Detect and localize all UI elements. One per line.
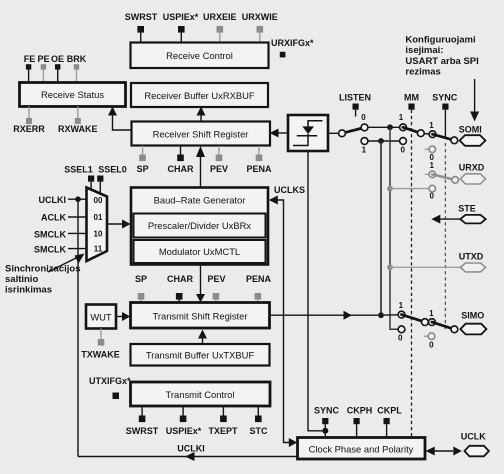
wire WUT to transmit-shift-register with right arrow	[116, 312, 130, 321]
svg-text:RXWAKE: RXWAKE	[58, 124, 98, 134]
svg-text:0: 0	[400, 146, 405, 155]
port SIMO	[460, 324, 486, 335]
pin square PENA (rx, gray)	[256, 146, 263, 161]
switch contact simo-mid2	[429, 319, 436, 326]
svg-text:USPIEx*: USPIEx*	[166, 426, 202, 436]
node utxd tap (gray)	[387, 264, 393, 270]
svg-text:URXEIE: URXEIE	[203, 12, 237, 22]
svg-text:0: 0	[398, 333, 403, 342]
svg-text:SYNC: SYNC	[314, 406, 340, 416]
svg-text:CHAR: CHAR	[167, 274, 193, 284]
annotation arrow (konfig outputs)	[470, 79, 479, 122]
mux clock-source selector	[87, 188, 108, 262]
svg-text:00: 00	[94, 196, 103, 205]
pin square SYNC (bottom)	[322, 418, 328, 424]
svg-text:PE: PE	[37, 54, 49, 64]
svg-text:Receive Control: Receive Control	[166, 50, 233, 61]
pin square TXWAKE (gray)	[98, 329, 105, 346]
svg-text:saltinio: saltinio	[5, 274, 38, 285]
svg-text:WUT: WUT	[90, 312, 112, 323]
port URXD (gray)	[460, 174, 485, 184]
svg-text:0: 0	[361, 113, 366, 122]
node rx junction	[387, 124, 393, 130]
svg-text:Transmit Control: Transmit Control	[166, 389, 235, 400]
pin square SWRST (top)	[137, 26, 144, 43]
svg-text:UTXD: UTXD	[459, 252, 484, 262]
svg-text:FE: FE	[24, 54, 36, 64]
svg-text:UCLKS: UCLKS	[274, 185, 305, 195]
pin square USPIEx* (bottom)	[180, 406, 187, 422]
wire UCLKI input	[68, 198, 87, 200]
pin square CHAR (tx)	[176, 293, 183, 303]
switch contact sync-0 stub (gray)	[425, 146, 436, 153]
svg-text:SP: SP	[135, 274, 147, 284]
box Receive Status	[20, 83, 126, 107]
svg-text:UTXIFGx*: UTXIFGx*	[89, 376, 131, 386]
wire UCLKI feedback (left vertical)	[77, 199, 79, 456]
svg-text:rezimas: rezimas	[405, 67, 440, 78]
svg-text:PEV: PEV	[207, 274, 225, 284]
switch contact urxd-in stub (gray)	[425, 171, 436, 178]
wire UTXD (gray)	[390, 266, 460, 268]
svg-text:0: 0	[429, 191, 434, 200]
svg-text:1: 1	[362, 146, 367, 155]
pin square CKPL	[384, 418, 390, 438]
wire tx to simo switch	[384, 314, 398, 316]
pin square CKPH	[354, 418, 360, 438]
switch lever listen	[342, 128, 364, 134]
svg-text:SMCLK: SMCLK	[34, 230, 66, 240]
wire rx row2	[368, 140, 400, 142]
pin square UTXIFGx*	[113, 393, 120, 400]
wire buffer-symbol to shift-register with left arrow	[270, 129, 289, 138]
port UCLK	[464, 446, 489, 457]
svg-text:SWRST: SWRST	[125, 12, 158, 22]
box WUT	[86, 305, 116, 329]
svg-text:SSEL0: SSEL0	[98, 165, 127, 175]
port STE	[460, 215, 485, 224]
node UCLKI feedback junction	[75, 196, 81, 202]
switch lever simo-2	[432, 322, 455, 329]
port SOMI	[460, 135, 486, 146]
pin square SWRST (bottom)	[139, 406, 146, 422]
switch contact somi	[451, 137, 458, 144]
svg-text:OE: OE	[51, 54, 64, 64]
switch contact simo-out	[451, 326, 458, 333]
svg-text:01: 01	[94, 213, 103, 222]
svg-text:LISTEN: LISTEN	[339, 93, 371, 103]
svg-text:CHAR: CHAR	[168, 164, 194, 174]
svg-text:1: 1	[429, 161, 434, 170]
wire SMCLK input	[68, 232, 87, 234]
svg-text:SOMI: SOMI	[459, 124, 482, 134]
svg-text:URXWIE: URXWIE	[242, 12, 278, 22]
svg-text:PENA: PENA	[246, 274, 272, 284]
wire mux output with right arrow	[107, 220, 131, 229]
box Receive Control	[131, 43, 269, 69]
svg-text:BRK: BRK	[67, 54, 87, 64]
wire SYNC control to buffer (vertical)	[308, 151, 323, 431]
pin square SP (tx, gray)	[138, 293, 145, 303]
switch contact mm-in	[400, 124, 407, 131]
svg-text:SIMO: SIMO	[461, 310, 484, 320]
svg-text:Receiver Shift Register: Receiver Shift Register	[153, 128, 249, 139]
box Prescaler/Divider UxBRx	[134, 214, 266, 238]
wire shift-register to receive-status with up arrow	[108, 107, 132, 131]
svg-text:STC: STC	[250, 426, 269, 436]
wire baud-generator to receiver-shift-register with up arrow	[196, 146, 205, 188]
svg-text:SWRST: SWRST	[126, 426, 159, 436]
svg-text:0: 0	[429, 341, 434, 350]
pin square SSEL1	[88, 176, 94, 191]
pin square URXEIE (gray)	[217, 26, 224, 43]
svg-text:TXEPT: TXEPT	[208, 426, 238, 436]
svg-text:Baud–Rate Generator: Baud–Rate Generator	[154, 195, 246, 206]
svg-text:SMCLK: SMCLK	[34, 245, 66, 255]
wire STE with left arrow	[431, 215, 460, 224]
svg-text:SSEL1: SSEL1	[64, 165, 93, 175]
switch contact urxd-tap (gray)	[429, 185, 436, 192]
box Receiver Shift Register	[132, 122, 271, 146]
svg-text:ACLK: ACLK	[41, 213, 66, 223]
svg-text:MM: MM	[404, 93, 419, 103]
box Modulator UxMCTL	[134, 240, 266, 263]
pin square PEV (tx, gray)	[213, 293, 220, 303]
switch contact sync-1	[429, 131, 436, 138]
svg-text:isrinkimas: isrinkimas	[5, 285, 52, 296]
box Baud-Rate Generator	[131, 188, 268, 265]
pin square LISTEN	[353, 104, 359, 117]
box Transmit Shift Register	[131, 303, 270, 329]
wire transmit-buffer to transmit-shift-register with up arrow	[198, 330, 207, 345]
svg-text:USPIEx*: USPIEx*	[163, 12, 199, 22]
svg-text:1: 1	[399, 301, 404, 310]
pin square STC	[255, 406, 262, 422]
svg-text:URXIFGx*: URXIFGx*	[271, 38, 314, 48]
wire UCLKI bottom with left arrow	[78, 452, 298, 461]
wire urxd tap (gray)	[390, 188, 429, 190]
wire SMCLK input (2)	[68, 248, 87, 250]
svg-text:Sinchronizacijos: Sinchronizacijos	[5, 264, 81, 275]
svg-text:isejimai:: isejimai:	[405, 45, 443, 56]
port UTXD (gray)	[460, 263, 485, 272]
pin square RXERR (gray)	[26, 107, 32, 125]
switch contact mm-0	[400, 138, 407, 145]
box Transmit Control	[131, 382, 271, 406]
wire loopback (tx to rx vertical)	[380, 141, 382, 315]
pin square URXWIE (gray)	[257, 26, 264, 43]
pin square SP (rx, gray)	[139, 146, 146, 161]
pin square TXEPT	[220, 406, 227, 422]
pin square PE (gray)	[41, 64, 46, 82]
wire UCLKS (baud box to clock phase box)	[269, 196, 298, 448]
wire clock box to UCLK port (double arrow)	[426, 447, 462, 456]
svg-text:SP: SP	[137, 164, 149, 174]
wire MM control (dashed)	[411, 110, 413, 438]
annotation arrow (clock source select)	[48, 254, 85, 273]
pin square FE	[26, 64, 31, 82]
switch contact urxd-out (gray)	[452, 177, 459, 184]
wire baud-generator to transmit-shift-register with down arrow	[196, 263, 205, 303]
pin square USPIEx* (top)	[178, 26, 185, 43]
wire rx row1	[368, 126, 400, 128]
svg-text:CKPL: CKPL	[377, 406, 402, 416]
pin square URXIFGx*	[280, 52, 286, 58]
switch contact (buffer out)	[339, 130, 346, 137]
pin square MM	[408, 104, 414, 110]
svg-text:Konfiguruojami: Konfiguruojami	[405, 35, 475, 46]
box Receiver Buffer UxRXBUF	[131, 83, 268, 107]
svg-text:Clock Phase and Polarity: Clock Phase and Polarity	[309, 444, 414, 455]
wire tx data out with right arrow	[270, 311, 379, 320]
switch contact simo-0	[398, 326, 405, 333]
svg-text:1: 1	[399, 113, 404, 122]
svg-text:RXERR: RXERR	[13, 124, 45, 134]
wire mm to sync switch	[424, 133, 429, 135]
svg-text:SYNC: SYNC	[432, 93, 458, 103]
wire rx data vertical	[390, 127, 398, 329]
buffer U1 (tri-state receive buffer)	[288, 115, 328, 151]
node loopback junction	[378, 138, 384, 144]
svg-text:Transmit Buffer UxTXBUF: Transmit Buffer UxTXBUF	[146, 350, 255, 361]
svg-text:1: 1	[429, 121, 434, 130]
pin square SSEL0	[97, 176, 103, 196]
switch contact mm-out	[417, 130, 424, 137]
box Transmit Buffer UxTXBUF	[131, 344, 270, 366]
svg-text:TXWAKE: TXWAKE	[81, 350, 120, 360]
node SYNC junction	[322, 424, 328, 437]
pin square OE	[55, 64, 60, 82]
svg-text:Modulator UxMCTL: Modulator UxMCTL	[159, 246, 240, 257]
pin square PENA (tx, gray)	[255, 293, 262, 303]
svg-text:UCLKI: UCLKI	[39, 195, 67, 205]
node tx junction	[378, 312, 384, 318]
wire ACLK input	[68, 216, 87, 218]
switch contact simo-in	[398, 311, 405, 318]
switch contact simo gray stub	[424, 333, 435, 340]
svg-text:CKPH: CKPH	[347, 406, 373, 416]
wire shift-register to buffer with up arrow	[197, 107, 206, 122]
svg-text:11: 11	[94, 245, 103, 254]
switch contact listen-1	[361, 138, 368, 145]
switch lever sync-somi	[433, 134, 455, 140]
switch contact simo-mid	[422, 319, 429, 326]
svg-text:1: 1	[429, 309, 434, 318]
box Clock Phase and Polarity	[298, 438, 426, 460]
wire buffer output to LISTEN switch	[328, 132, 339, 134]
svg-text:PENA: PENA	[246, 164, 272, 174]
svg-text:UCLK: UCLK	[461, 432, 486, 442]
pin square PEV (rx, gray)	[216, 146, 223, 161]
pin square BRK (gray)	[74, 64, 79, 82]
svg-text:Prescaler/Divider UxBRx: Prescaler/Divider UxBRx	[148, 220, 251, 231]
pin square CHAR (rx)	[177, 146, 184, 161]
svg-text:Receiver Buffer UxRXBUF: Receiver Buffer UxRXBUF	[144, 90, 255, 101]
svg-text:10: 10	[94, 229, 103, 238]
switch lever simo-1	[402, 315, 425, 323]
svg-text:STE: STE	[458, 204, 476, 214]
pin square RXWAKE (gray)	[75, 107, 81, 125]
node urxd tap (gray)	[387, 186, 393, 192]
svg-text:Transmit Shift Register: Transmit Shift Register	[153, 310, 248, 321]
pin square SYNC (top)	[442, 104, 448, 138]
switch contact listen-0	[361, 124, 368, 131]
switch lever mm	[403, 127, 421, 133]
wire SYNC (dashed)	[444, 143, 446, 332]
svg-text:Receive Status: Receive Status	[41, 89, 104, 100]
svg-text:PEV: PEV	[210, 164, 228, 174]
switch lever urxd (gray)	[432, 174, 455, 180]
svg-text:USART arba SPI: USART arba SPI	[405, 56, 478, 67]
svg-text:URXD: URXD	[459, 162, 485, 172]
svg-text:UCLKI: UCLKI	[177, 444, 205, 454]
